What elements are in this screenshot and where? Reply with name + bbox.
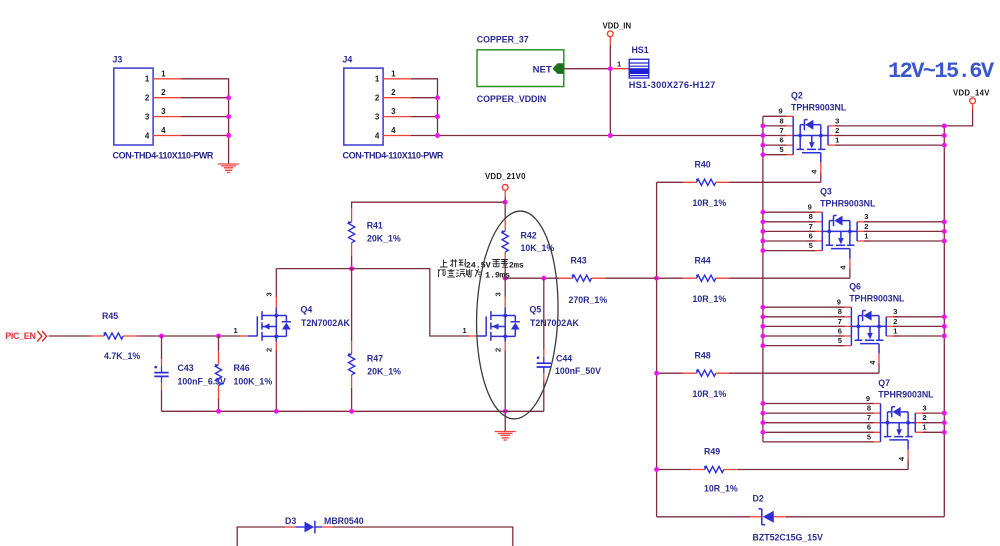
svg-text:MBR0540: MBR0540 (324, 516, 364, 526)
wire node to R43 (505, 277, 559, 279)
svg-text:T2N7002AK: T2N7002AK (301, 318, 351, 328)
svg-text:1: 1 (234, 326, 238, 335)
svg-text:R41: R41 (367, 221, 383, 231)
annotation Chinese note line1: 上升到24.5V需要2ms (440, 259, 465, 267)
svg-text:1.9ms: 1.9ms (485, 271, 510, 281)
wires Q7 source pins to right trunk (922, 413, 944, 432)
svg-text:100nF_50V: 100nF_50V (555, 366, 601, 376)
wire D2 to source trunk (786, 516, 945, 518)
svg-text:20K_1%: 20K_1% (367, 233, 401, 243)
wire bottom gnd rail (162, 410, 544, 412)
annotation highlight ellipse (473, 210, 561, 421)
node C44 junction (541, 276, 546, 281)
copper area COPPER_37 (477, 35, 564, 105)
svg-text:R44: R44 (695, 255, 711, 265)
wire gate bus to R40 (657, 181, 684, 183)
connector J4 (343, 55, 444, 161)
svg-text:1: 1 (463, 326, 467, 335)
svg-text:20K_1%: 20K_1% (367, 366, 401, 376)
svg-text:PIC_EN: PIC_EN (5, 331, 35, 341)
hanzi sheng (450, 259, 457, 267)
wire D3 loop box (237, 527, 513, 546)
svg-text:10R_1%: 10R_1% (693, 389, 727, 399)
svg-text:R45: R45 (102, 311, 118, 321)
svg-text:D3: D3 (285, 516, 296, 526)
wires Q2 source pins to right trunk (835, 126, 944, 145)
svg-text:R40: R40 (695, 159, 711, 169)
wires Q3 source pins to right trunk (864, 222, 944, 241)
wires Q3 drain pins to trunk (763, 212, 815, 250)
svg-text:Q6: Q6 (849, 282, 861, 292)
wire R43 to gate bus (605, 277, 657, 279)
resistor R43 (559, 255, 607, 305)
svg-text:100K_1%: 100K_1% (234, 377, 273, 387)
wire right source trunk (943, 126, 945, 517)
node R42 bottom junction (503, 276, 508, 281)
svg-text:CON-THD4-110X110-PWR: CON-THD4-110X110-PWR (113, 151, 214, 161)
resistor R42 (501, 218, 554, 265)
node Q5 source gnd junction (503, 409, 508, 414)
svg-text:COPPER_37: COPPER_37 (477, 35, 529, 45)
power port VDD_IN (603, 21, 632, 45)
wire VDD_IN drop (609, 45, 611, 136)
svg-text:TPHR9003NL: TPHR9003NL (878, 390, 934, 400)
node R46 junction (216, 334, 221, 339)
connector J3 (113, 55, 214, 161)
power port VDD_21V0 (485, 172, 526, 198)
svg-text:C44: C44 (556, 354, 572, 364)
wire VDD_14V to source rail (944, 111, 972, 126)
diode D2 zener (750, 493, 823, 542)
J3 pin stubs (153, 79, 181, 136)
svg-text:10R_1%: 10R_1% (693, 294, 727, 304)
annotation Chinese note line2: 仿真缓起为1.9ms (439, 269, 482, 277)
wire R47 top (351, 269, 353, 341)
node junctions J3 bus (226, 95, 231, 138)
svg-text:C43: C43 (178, 363, 194, 373)
svg-text:Q7: Q7 (878, 378, 890, 388)
hanzi fang (439, 269, 446, 277)
wire VDD rail to R41 (352, 202, 506, 209)
node junctions J4 bus (435, 95, 440, 138)
svg-text:R49: R49 (704, 447, 720, 457)
svg-text:TPHR9003NL: TPHR9003NL (791, 102, 847, 112)
svg-text:R47: R47 (367, 354, 383, 364)
svg-text:R48: R48 (695, 350, 711, 360)
resistor R46 (215, 336, 273, 411)
wire Q4 source to gnd rail (275, 351, 277, 412)
wires Q2 drain pins to trunk (763, 116, 786, 154)
wire VDD_21V0 drop (504, 198, 506, 219)
wire gate drive bus (656, 182, 658, 517)
node C43 junction (159, 334, 164, 339)
resistor R44 (683, 255, 729, 304)
svg-text:HS1: HS1 (632, 45, 649, 55)
node Q7 trunk junctions (760, 401, 946, 435)
node Q2 trunk junctions (760, 123, 946, 157)
resistor R47 (348, 341, 401, 388)
svg-text:1: 1 (617, 59, 621, 68)
ground J3 (218, 164, 239, 173)
svg-text:J4: J4 (343, 55, 353, 65)
wire left drain trunk (762, 116, 764, 442)
svg-text:R46: R46 (234, 363, 250, 373)
svg-text:BZT52C15G_15V: BZT52C15G_15V (753, 532, 824, 542)
node R44 bus junction (654, 276, 659, 281)
wire R47 to gnd rail (351, 388, 353, 411)
node R49 bus junction (654, 467, 659, 472)
svg-text:4.7K_1%: 4.7K_1% (104, 351, 140, 361)
wire gate bus to R49 (657, 469, 692, 471)
hanzi yao (501, 260, 508, 268)
svg-text:2ms: 2ms (509, 260, 524, 270)
svg-text:TPHR9003NL: TPHR9003NL (849, 293, 905, 303)
capacitor C44 (537, 278, 602, 411)
node Q6 trunk junctions (760, 305, 946, 348)
wire gate bus to D2 (657, 516, 750, 518)
node VDD rail junction (503, 200, 508, 205)
transistor Q7 (866, 378, 935, 470)
power port VDD_14V (953, 88, 990, 111)
transistor Q2 (778, 91, 847, 183)
svg-text:24.5V: 24.5V (466, 260, 492, 270)
wires Q6 drain pins to trunk (763, 307, 845, 345)
svg-text:Q4: Q4 (301, 304, 313, 314)
hanzi wei (475, 269, 482, 277)
svg-text:VDD_IN: VDD_IN (603, 21, 632, 30)
wire Q2 gate to R40 (729, 181, 821, 183)
hanzi zhen (447, 269, 455, 277)
heatsink HS1 (613, 45, 715, 90)
capacitor C43 (154, 336, 226, 411)
hanzi dao (459, 259, 466, 267)
transistor Q5 (463, 292, 580, 352)
svg-text:10R_1%: 10R_1% (693, 198, 727, 208)
transistor Q4 (234, 292, 351, 352)
resistor R49 (691, 447, 738, 494)
svg-text:HS1-300X276-H127: HS1-300X276-H127 (629, 80, 716, 90)
svg-text:COPPER_VDDIN: COPPER_VDDIN (477, 94, 546, 104)
diode D3 (285, 516, 364, 533)
svg-text:NET: NET (533, 65, 552, 76)
resistor R48 (683, 350, 729, 399)
wire Q6 gate to R48 (729, 372, 879, 374)
wire R45 to Q4 gate (137, 335, 240, 337)
node Q3 trunk junctions (760, 210, 946, 253)
hanzi huan (456, 269, 465, 277)
svg-text:J3: J3 (113, 55, 123, 65)
wire Q5 source down (504, 351, 506, 432)
ground Q5 (495, 432, 516, 441)
svg-text:VDD_21V0: VDD_21V0 (485, 172, 526, 181)
transistor Q6 (836, 282, 905, 374)
port PIC_EN (5, 331, 46, 342)
resistor R40 (683, 159, 729, 208)
resistor R41 (348, 209, 401, 256)
wire Q5 drain up (504, 278, 506, 296)
wire J4 bus to VDD_IN rail (438, 135, 763, 137)
wire R41 to mid rail (351, 256, 353, 269)
wires Q6 source pins to right trunk (893, 317, 944, 336)
node VDD_IN junctions (608, 66, 613, 71)
svg-text:Q2: Q2 (791, 91, 803, 101)
wire Q4 drain to mid rail (275, 269, 277, 297)
svg-text:12V~15.6V: 12V~15.6V (888, 59, 995, 84)
node gnd rail junctions (216, 409, 354, 414)
wire NET to VDD_IN (564, 68, 611, 70)
wires Q7 drain pins to trunk (763, 404, 874, 442)
svg-text:T2N7002AK: T2N7002AK (530, 318, 580, 328)
wire gate bus to R48 (657, 372, 684, 374)
svg-text:R43: R43 (571, 255, 587, 265)
svg-text:Q5: Q5 (530, 304, 542, 314)
svg-text:10R_1%: 10R_1% (704, 484, 738, 494)
svg-text:R42: R42 (521, 231, 537, 241)
hanzi qi (466, 269, 473, 277)
svg-text:D2: D2 (753, 493, 764, 503)
wire mid rail Q4 drain to Q5 gate (276, 269, 469, 336)
svg-text:270R_1%: 270R_1% (569, 295, 608, 305)
svg-text:Q3: Q3 (820, 187, 832, 197)
svg-text:CON-THD4-110X110-PWR: CON-THD4-110X110-PWR (343, 151, 444, 161)
wire PIC_EN to R45 (49, 335, 91, 337)
hanzi shang (440, 260, 448, 268)
wire J4 pins to bus (411, 79, 438, 136)
node mid rail junction (349, 266, 354, 271)
wire J3 pins to ground bus (181, 79, 229, 164)
wire Q3 gate to R44 (729, 277, 850, 279)
resistor R45 (91, 311, 141, 361)
hanzi xu (493, 260, 501, 268)
J4 pin stubs (383, 79, 411, 136)
transistor Q3 (807, 187, 876, 279)
wire gate bus to R44 (657, 277, 684, 279)
svg-text:TPHR9003NL: TPHR9003NL (820, 198, 876, 208)
wire R42 to gate row (504, 265, 506, 278)
svg-text:VDD_14V: VDD_14V (953, 88, 990, 97)
node R48 bus junction (654, 371, 659, 376)
wire Q7 gate to R49 (737, 469, 908, 471)
